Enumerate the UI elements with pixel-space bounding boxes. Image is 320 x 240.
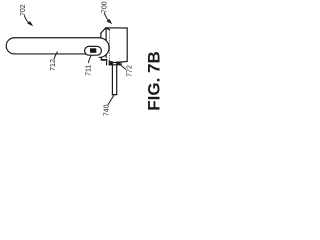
shaft 702 bottom line xyxy=(15,53,86,55)
rod 740 xyxy=(112,65,116,95)
leader line to 740 xyxy=(108,95,114,104)
leader line to 712 xyxy=(54,52,58,59)
svg-text:711: 711 xyxy=(86,65,93,76)
bracket right tick xyxy=(120,63,122,66)
svg-text:740: 740 xyxy=(104,104,111,116)
svg-text:712: 712 xyxy=(50,59,57,71)
bracket inner vertical xyxy=(108,60,110,65)
step shelf below head xyxy=(101,59,106,61)
arrow leader 702 xyxy=(24,16,33,27)
bracket left vertical xyxy=(106,60,108,65)
bolt left (black) xyxy=(110,61,113,64)
anvil plate 772 (3D slab behind head) xyxy=(101,28,128,63)
svg-text:772: 772 xyxy=(127,65,134,77)
window 711 (stadium with dark insert) xyxy=(85,46,102,55)
bracket bottom bar xyxy=(109,64,121,66)
leader line to 772 xyxy=(120,64,126,69)
bolt right (black) xyxy=(116,62,120,65)
leader line to 711 xyxy=(88,56,91,63)
svg-text:702: 702 xyxy=(20,4,27,16)
tube head (rounded right end of shaft) xyxy=(99,38,109,60)
shaft 702 top line xyxy=(15,37,100,39)
svg-text:FIG. 7B: FIG. 7B xyxy=(145,51,163,111)
svg-text:700: 700 xyxy=(102,1,109,13)
shaft 702 left end cap xyxy=(6,38,14,54)
arrow leader 700 xyxy=(104,13,112,25)
